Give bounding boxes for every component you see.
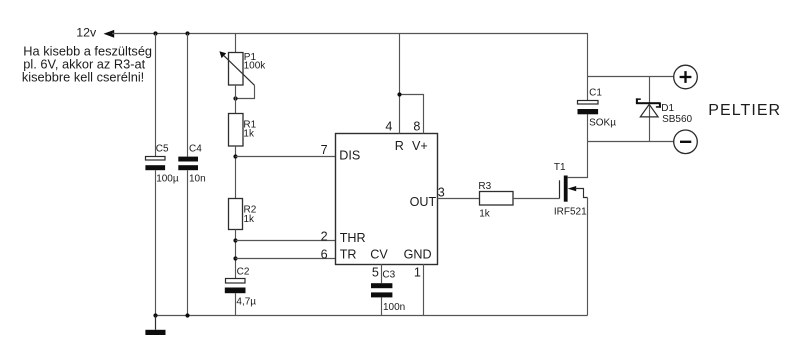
svg-text:100n: 100n: [383, 302, 405, 313]
svg-text:4,7µ: 4,7µ: [236, 296, 256, 307]
potentiometer P1: [229, 53, 244, 86]
svg-text:5: 5: [372, 265, 379, 279]
transistor T1 channel bar: [564, 176, 568, 202]
svg-text:C3: C3: [382, 270, 395, 281]
wire rail corner down to C1: [587, 34, 589, 101]
svg-text:1k: 1k: [479, 209, 491, 220]
node dot R1-DIS: [233, 154, 237, 158]
wire ground rail: [156, 315, 588, 317]
transistor T1 gate: [559, 180, 561, 198]
svg-text:7: 7: [321, 143, 328, 157]
wire pin2 THR: [236, 240, 336, 242]
node dot P1 wiper: [233, 96, 237, 100]
svg-text:100k: 100k: [244, 60, 267, 71]
wire pin6 TR: [236, 258, 336, 260]
svg-text:TR: TR: [340, 247, 357, 261]
svg-text:4: 4: [385, 120, 392, 134]
resistor R2: [229, 199, 243, 230]
svg-text:C2: C2: [237, 266, 250, 277]
terminal plus: [674, 65, 698, 89]
node dot THR: [233, 238, 237, 242]
svg-text:1k: 1k: [244, 214, 256, 225]
wire C4 bottom: [187, 170, 189, 315]
svg-text:12v: 12v: [76, 26, 97, 40]
node dot rail-C4: [185, 31, 189, 35]
svg-text:100µ: 100µ: [156, 174, 179, 185]
svg-text:1k: 1k: [243, 129, 255, 140]
wire C2 to ground rail: [235, 293, 237, 315]
wire C3 bottom: [381, 297, 383, 315]
capacitor C5: [146, 157, 166, 161]
svg-text:THR: THR: [340, 231, 366, 245]
svg-text:SB560: SB560: [662, 114, 692, 125]
wire top 12v rail: [112, 33, 588, 35]
capacitor C1: [578, 101, 599, 105]
transistor T1 drain stub: [568, 114, 588, 177]
wire P1 to R1: [235, 85, 237, 114]
capacitor C2: [226, 279, 246, 284]
svg-text:T1: T1: [554, 162, 566, 173]
ground: [155, 316, 157, 330]
svg-text:6: 6: [321, 248, 328, 262]
capacitor C4: [178, 157, 198, 162]
svg-text:OUT: OUT: [410, 195, 437, 209]
diode D1: [649, 77, 651, 142]
wire pin3 OUT: [438, 198, 480, 200]
node dot TR: [233, 256, 237, 260]
svg-text:SOKµ: SOKµ: [589, 117, 616, 128]
resistor R1: [229, 114, 244, 147]
svg-text:1: 1: [414, 265, 421, 279]
wire C5 bottom: [155, 170, 157, 315]
wire R1 to R2: [235, 146, 237, 199]
resistor R3: [480, 192, 514, 206]
wire R2 to C2: [235, 230, 237, 279]
svg-text:2: 2: [321, 229, 328, 243]
node dot rail C5: [153, 313, 157, 317]
wire pin1 GND: [423, 264, 425, 316]
wire V+ feed from rail: [399, 34, 401, 134]
wire pin8 branch: [400, 95, 424, 134]
12v arrow: [104, 30, 115, 38]
svg-text:R: R: [395, 139, 404, 153]
wire P1 wiper: [236, 85, 255, 98]
svg-text:C5: C5: [156, 143, 169, 154]
wire plus branch: [588, 76, 674, 78]
svg-text:3: 3: [438, 186, 445, 200]
terminal minus: [674, 130, 698, 154]
transistor T1 bulk arrow: [568, 186, 577, 191]
node dot rail-C5: [153, 31, 157, 35]
note text: [22, 44, 152, 85]
svg-text:GND: GND: [404, 247, 432, 261]
svg-text:C4: C4: [189, 143, 202, 154]
wire C4 column top: [187, 34, 189, 157]
wire T1 source down: [587, 198, 589, 316]
svg-text:D1: D1: [661, 103, 674, 114]
wire P1 column top: [235, 34, 237, 53]
svg-text:V+: V+: [412, 139, 428, 153]
svg-text:8: 8: [413, 120, 420, 134]
svg-text:R3: R3: [478, 181, 491, 192]
svg-text:CV: CV: [370, 247, 388, 261]
wire minus branch: [588, 141, 674, 143]
wire pin7 DIS: [236, 156, 336, 158]
op-amp U1 555 IC body: [336, 134, 438, 265]
svg-text:DIS: DIS: [339, 149, 360, 163]
svg-text:PELTIER: PELTIER: [708, 102, 781, 119]
svg-text:IRF521: IRF521: [554, 206, 587, 217]
node dot rail C4: [185, 313, 189, 317]
node dot pin4-pin8: [397, 92, 401, 96]
capacitor C3: [371, 283, 392, 288]
wire pin5 CV: [381, 264, 383, 283]
wire C5 column top: [155, 34, 157, 157]
wire R3 to gate: [513, 198, 560, 200]
svg-text:C1: C1: [589, 88, 602, 99]
svg-text:kisebbre kell cserélni!: kisebbre kell cserélni!: [22, 70, 144, 85]
svg-text:10n: 10n: [189, 174, 206, 185]
